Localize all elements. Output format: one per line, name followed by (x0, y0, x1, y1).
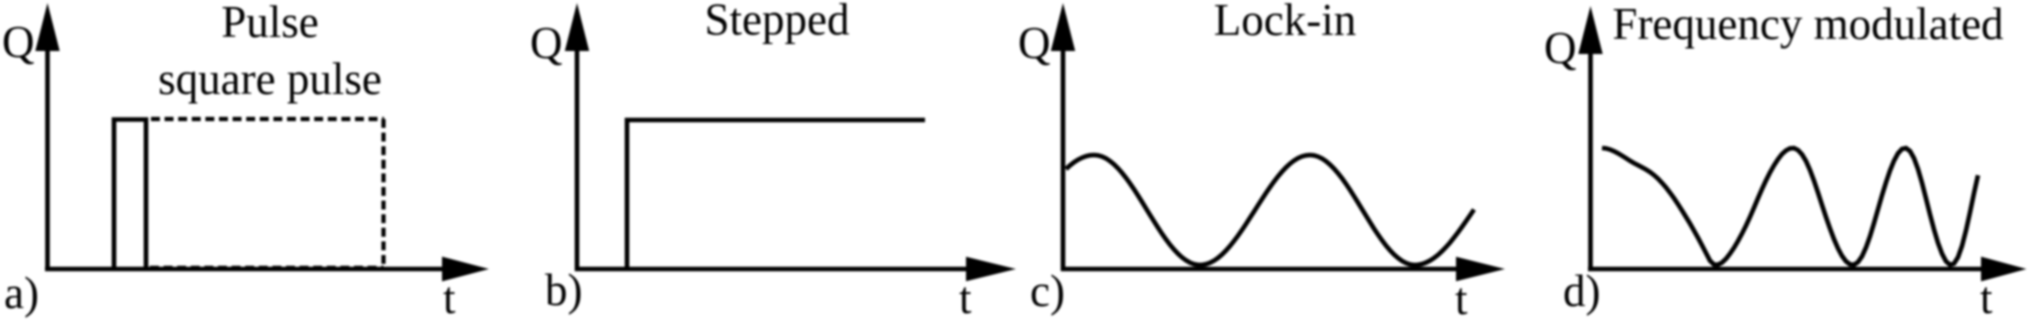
svg-text:t: t (959, 273, 972, 320)
panel d frequency-modulated wave (1602, 148, 1978, 265)
svg-text:b): b) (545, 265, 583, 315)
svg-text:t: t (1980, 273, 1993, 320)
panel c x-axis arrowhead (1456, 257, 1505, 281)
panel b y-axis arrowhead (565, 3, 589, 51)
panel a dashed pulse top edge (151, 117, 384, 121)
panel a y-axis (45, 45, 50, 271)
panel b x-axis (575, 267, 968, 272)
panel a dashed pulse bottom edge (peeks above axis) (150, 266, 384, 270)
svg-text:d): d) (1563, 266, 1601, 316)
panel a y-axis arrowhead (35, 3, 59, 51)
svg-text:a): a) (4, 268, 39, 318)
svg-text:Q: Q (2, 17, 35, 67)
svg-text:Q: Q (1018, 18, 1051, 68)
svg-text:t: t (443, 273, 456, 320)
svg-text:Frequency modulated: Frequency modulated (1612, 0, 2003, 49)
panel d y-axis arrowhead (1578, 6, 1602, 54)
panel c lock-in sine wave (1066, 155, 1474, 265)
panel a dashed pulse right edge (381, 119, 385, 267)
panel a x-axis (45, 267, 445, 272)
svg-text:Stepped: Stepped (705, 0, 850, 45)
svg-text:t: t (1455, 274, 1468, 320)
panel a x-axis arrowhead (442, 257, 489, 282)
panel c y-axis (1061, 45, 1066, 271)
svg-text:Lock-in: Lock-in (1214, 0, 1356, 45)
svg-text:Q: Q (1544, 23, 1577, 73)
svg-text:Q: Q (530, 18, 563, 68)
panel d y-axis (1588, 48, 1593, 271)
panel a square pulse (solid) (114, 120, 146, 270)
svg-text:Pulse: Pulse (221, 0, 319, 47)
panel d x-axis arrowhead (1981, 257, 2027, 282)
panel b step waveform (627, 120, 925, 269)
svg-text:c): c) (1030, 266, 1065, 316)
panel d x-axis (1588, 267, 1984, 272)
panel b y-axis (575, 45, 580, 271)
panel c x-axis (1061, 267, 1458, 272)
panel b x-axis arrowhead (966, 257, 1016, 281)
panel c y-axis arrowhead (1051, 3, 1075, 51)
svg-text:square pulse: square pulse (158, 54, 382, 104)
